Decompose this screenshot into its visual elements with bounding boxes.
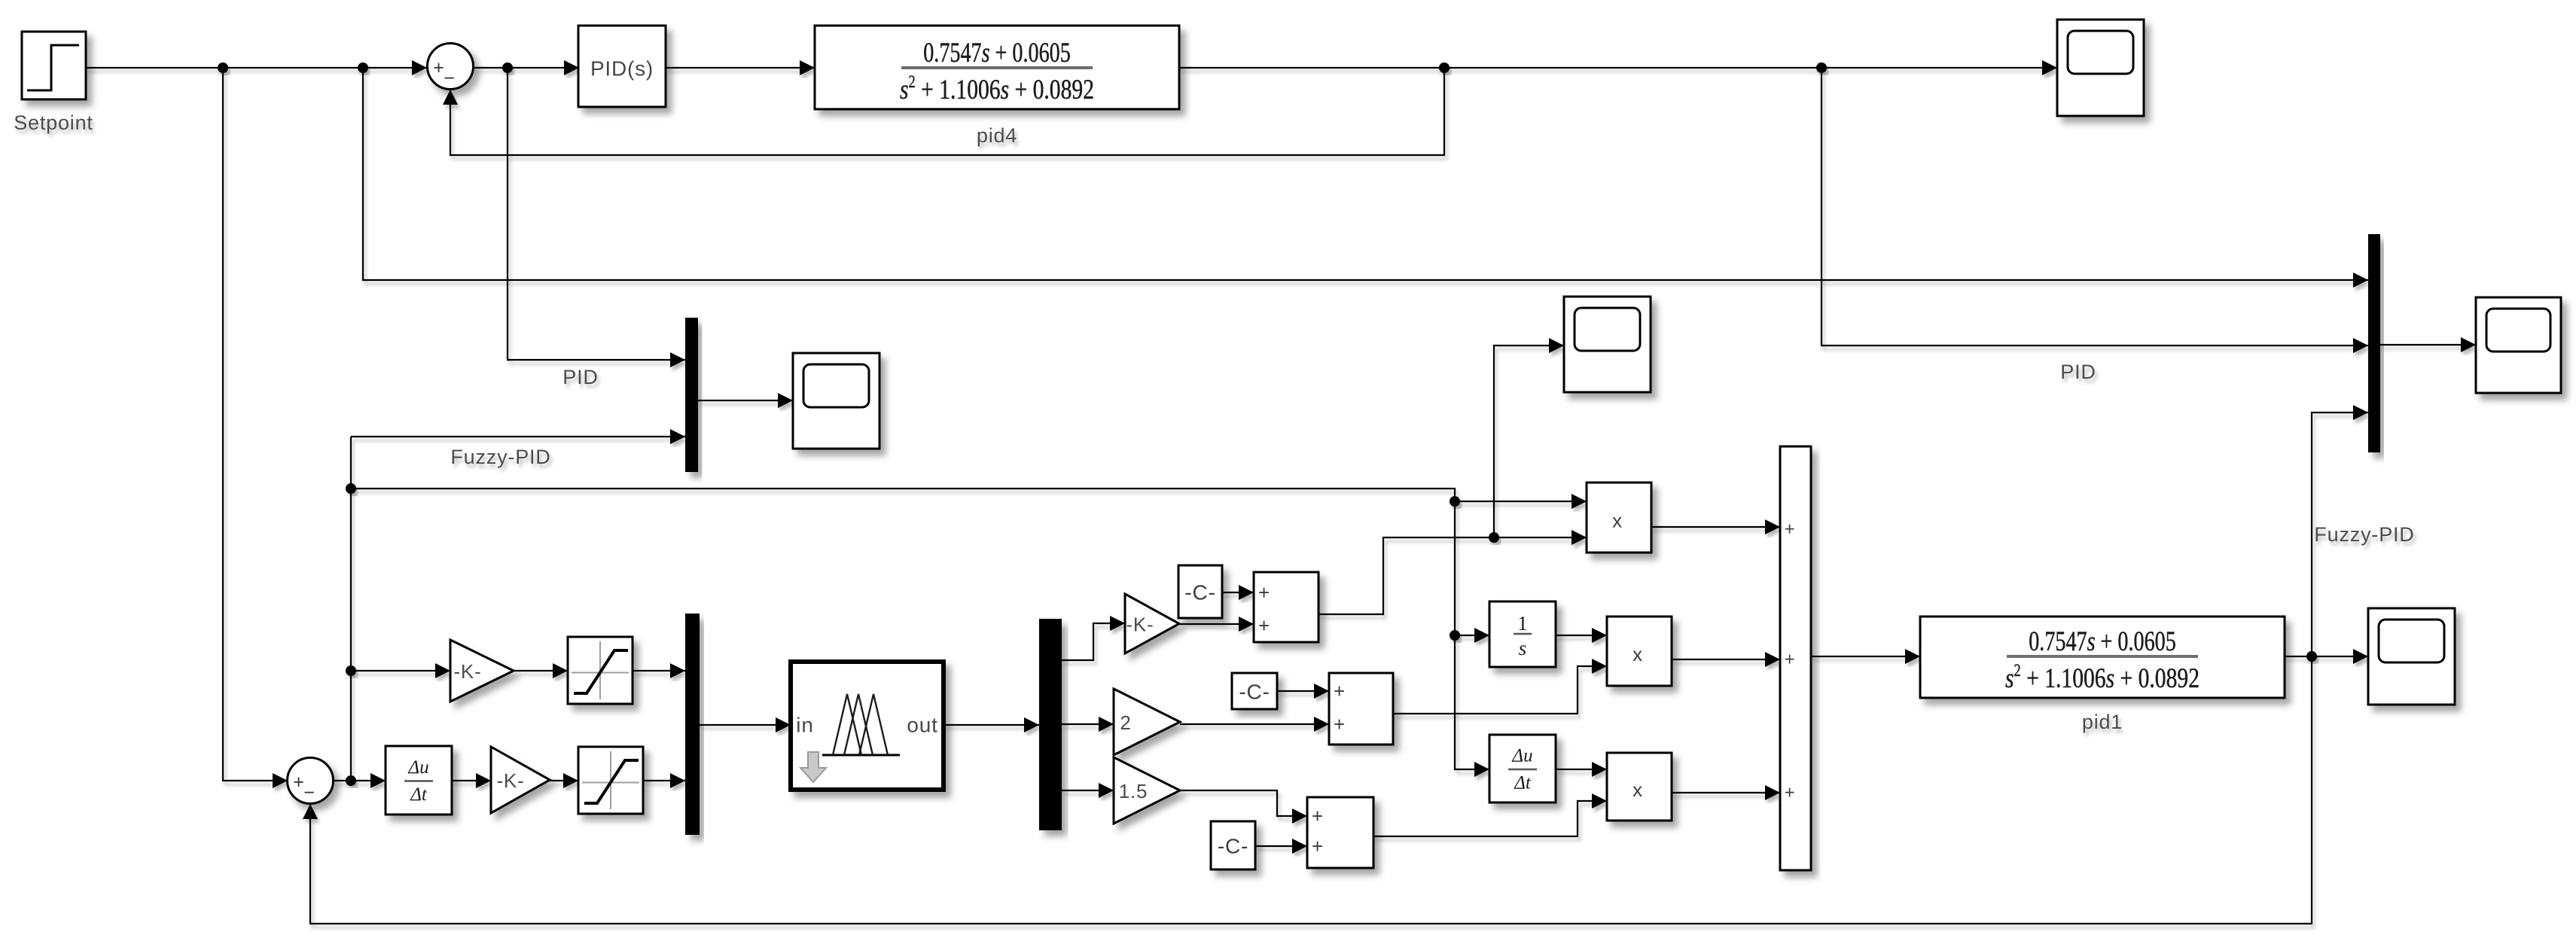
adder (sum of PID terms) — [1780, 446, 1811, 870]
mux M3 — [2368, 234, 2380, 452]
svg-text:PID: PID — [2060, 361, 2096, 383]
node e2 gain tap — [346, 665, 356, 676]
svg-text:Δu: Δu — [1511, 746, 1532, 766]
svg-text:x: x — [1632, 643, 1643, 665]
svg-text:+: + — [1258, 581, 1270, 604]
svg-text:s2 + 1.1006s + 0.0892: s2 + 1.1006s + 0.0892 — [900, 72, 1094, 105]
wire setpoint to mux M3 input1 — [360, 65, 2371, 288]
svg-text:1: 1 — [1517, 612, 1528, 635]
wire gain G3 to sum C — [1177, 787, 1310, 824]
gain K3 (-K-) — [1125, 594, 1179, 653]
wire Sat1 to mux MF — [630, 663, 688, 678]
wire gain K2 to saturation Sat2 — [547, 773, 581, 788]
wire demux out2 to gain G2 — [1059, 717, 1117, 732]
svg-text:-C-: -C- — [1239, 681, 1270, 704]
node integrator tap — [1450, 630, 1460, 641]
wire pid1 to scope Scope5 — [2282, 649, 2371, 664]
wire setpoint to sum S2 — [220, 65, 291, 788]
svg-text:x: x — [1612, 510, 1623, 532]
scope Scope5 — [2368, 608, 2455, 705]
scope Scope2 — [793, 353, 879, 449]
label PID (mux M3) — [2060, 361, 2096, 383]
demux D1 — [1039, 619, 1062, 830]
wire to product x1 input1 — [1452, 494, 1590, 509]
svg-text:2: 2 — [1120, 711, 1131, 734]
scope Scope4 — [2476, 297, 2561, 393]
svg-text:x: x — [1632, 778, 1643, 801]
sum B — [1329, 673, 1393, 745]
svg-text:-K-: -K- — [496, 769, 524, 792]
label pid4 — [977, 124, 1017, 147]
PID controller block PID(s) — [578, 26, 666, 107]
svg-text:pid4: pid4 — [977, 124, 1017, 147]
sum S1 — [428, 44, 474, 90]
wire e1 to mux M1 input1 — [505, 65, 688, 367]
wire to scope Scope3 — [1491, 338, 1567, 540]
node product x1 tap — [1450, 496, 1460, 507]
svg-text:Setpoint: Setpoint — [14, 111, 93, 134]
fuzzy logic controller — [791, 662, 944, 790]
mux MF (fuzzy input mux) — [685, 614, 700, 835]
svg-text:+: + — [1334, 680, 1346, 702]
sum A — [1254, 572, 1318, 642]
node scope3 tap — [1489, 532, 1499, 543]
svg-text:-C-: -C- — [1218, 835, 1248, 858]
transfer function pid4 — [815, 26, 1179, 109]
svg-text:-C-: -C- — [1184, 581, 1215, 604]
sum C — [1307, 797, 1373, 868]
svg-text:in: in — [796, 714, 813, 737]
svg-text:+: + — [1785, 783, 1796, 803]
wire e2 riser — [348, 434, 354, 784]
svg-text:Δu: Δu — [407, 757, 428, 778]
product x3 — [1607, 753, 1672, 821]
svg-text:Δt: Δt — [410, 784, 428, 805]
svg-text:+: + — [1258, 614, 1270, 637]
label PID (mux M1) — [562, 366, 598, 388]
wire mux M3 to scope Scope4 — [2377, 337, 2479, 352]
wire fuzzy controller to demux — [940, 717, 1042, 732]
svg-text:+: + — [1312, 805, 1324, 827]
wire du/dt to gain K2 — [449, 773, 494, 788]
wire gain K3 to sum A — [1176, 617, 1257, 632]
svg-text:s2 + 1.1006s + 0.0892: s2 + 1.1006s + 0.0892 — [2005, 661, 2200, 694]
wire Sat2 to mux MF — [640, 773, 688, 788]
wire mux MF to fuzzy controller — [697, 717, 794, 732]
constant C2 (-C-) — [1232, 673, 1277, 709]
mux M1 — [685, 318, 698, 472]
wire PID(s) to pid4 — [663, 60, 818, 75]
integrator 1/s — [1489, 601, 1556, 667]
wire feedback pid4 to sum S1 — [443, 65, 1447, 158]
node e1 tap — [502, 62, 513, 73]
wire C3 to sum C — [1252, 839, 1310, 854]
constant C1 (-C-) — [1178, 565, 1222, 618]
gain G2 (2) — [1114, 689, 1180, 755]
wire Setpoint to sum S1 — [83, 60, 430, 75]
wire sum B to product x2 input2 — [1390, 659, 1610, 717]
svg-text:-K-: -K- — [1126, 614, 1154, 636]
svg-text:+: + — [1785, 519, 1796, 540]
constant C3 (-C-) — [1211, 821, 1255, 869]
wire C2 to sum B — [1274, 684, 1332, 699]
label Fuzzy-PID (mux M1) — [450, 446, 550, 468]
wire gain G2 to sum B — [1177, 717, 1332, 732]
derivative block du/dt 2 — [1489, 735, 1556, 802]
node pid4 feedback tap — [1439, 62, 1450, 73]
wire sum C to product x3 input2 — [1370, 793, 1610, 839]
wire adder to pid1 — [1808, 649, 1923, 664]
wire S1 to PID(s) — [470, 60, 582, 75]
wire to integrator 1/s — [1452, 628, 1492, 643]
wire e2 to gain K1 — [348, 663, 453, 678]
wire demux out1 to gain K3 — [1059, 616, 1128, 663]
gain K1 (-K-) — [450, 640, 514, 702]
svg-text:out: out — [907, 714, 937, 737]
node tap to fuzzy loop — [218, 62, 228, 73]
wire C1 to sum A — [1219, 585, 1257, 600]
node pid1 output tap — [2306, 651, 2317, 662]
wire du/dt2 to product x3 — [1553, 762, 1610, 777]
svg-text:PID(s): PID(s) — [590, 57, 654, 81]
svg-text:1.5: 1.5 — [1119, 780, 1148, 802]
derivative block du/dt 1 — [386, 746, 452, 815]
svg-text:Δt: Δt — [1514, 773, 1532, 793]
wire fuzzy feedback to sum S2 — [303, 653, 2315, 927]
scope Scope3 — [1564, 297, 1651, 392]
gain K2 (-K-) — [491, 747, 550, 813]
svg-text:+: + — [1334, 713, 1346, 735]
node e2 long-line tap — [346, 483, 356, 494]
wire pid4 to scope Scope1 — [1176, 60, 2060, 75]
wire product x1 to adder — [1648, 519, 1783, 534]
wire e2 to mux M1 input2 — [348, 429, 688, 444]
scope Scope1 — [2057, 20, 2144, 116]
label pid1 — [2082, 711, 2123, 733]
svg-text:Fuzzy-PID: Fuzzy-PID — [450, 446, 550, 468]
product x1 — [1587, 483, 1651, 553]
svg-text:0.7547s + 0.0605: 0.7547s + 0.0605 — [923, 38, 1071, 69]
wire demux out3 to gain G3 — [1059, 783, 1117, 798]
label Fuzzy-PID (mux M3) — [2314, 523, 2414, 546]
transfer function pid1 — [1920, 617, 2285, 698]
wire sum S2 to du/dt — [331, 773, 389, 788]
wire fuzzy output up to mux M3 — [2309, 405, 2371, 659]
svg-text:−: − — [303, 782, 315, 803]
wire 1/s to product x2 — [1553, 628, 1610, 643]
label Setpoint — [14, 111, 93, 134]
sum S2 — [288, 758, 334, 804]
source block Setpoint (step) — [22, 32, 86, 99]
svg-text:0.7547s + 0.0605: 0.7547s + 0.0605 — [2029, 626, 2176, 657]
wire gain K1 to saturation Sat1 — [511, 663, 571, 678]
wire mux M1 to scope Scope2 — [695, 393, 796, 408]
svg-text:−: − — [444, 68, 455, 89]
wire pid4 out to mux M3 input2 — [1818, 65, 2371, 353]
wire product x2 to adder — [1669, 652, 1783, 667]
svg-text:PID: PID — [562, 366, 598, 388]
node tap setpoint display — [358, 62, 368, 73]
wire product x3 to adder — [1669, 785, 1783, 800]
svg-text:s: s — [1519, 637, 1527, 659]
svg-text:+: + — [1312, 835, 1324, 857]
node pid4 display tap — [1816, 62, 1827, 73]
saturation Sat2 — [578, 747, 643, 814]
saturation Sat1 — [568, 637, 633, 704]
wire sum A to product x1 input2 — [1315, 530, 1590, 617]
product x2 — [1607, 617, 1672, 686]
node e2 junction at sum S2 output — [346, 775, 356, 786]
svg-text:+: + — [1785, 650, 1796, 670]
wire e2 long line to products — [348, 486, 1492, 777]
svg-text:Fuzzy-PID: Fuzzy-PID — [2314, 523, 2414, 546]
svg-text:pid1: pid1 — [2082, 711, 2123, 733]
gain G3 (1.5) — [1114, 757, 1180, 824]
svg-text:-K-: -K- — [453, 660, 481, 683]
